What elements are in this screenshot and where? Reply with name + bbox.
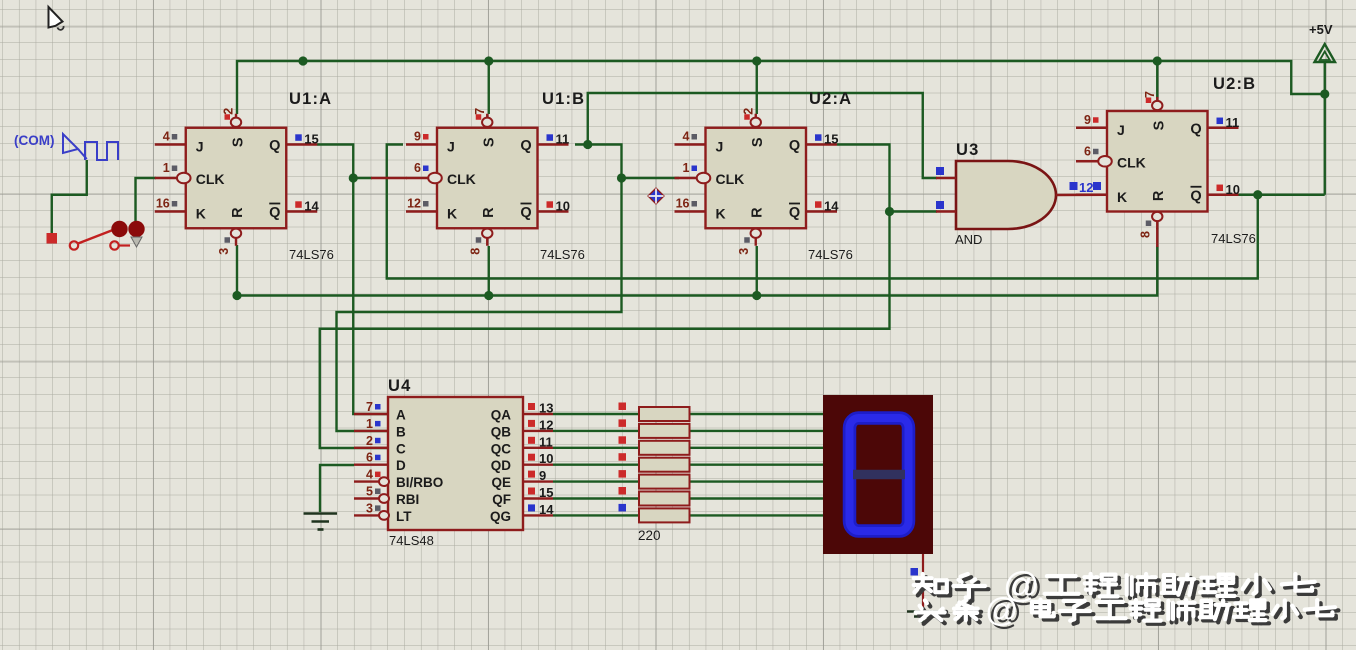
svg-text:Q: Q [789, 138, 800, 154]
junction node reset rail A [232, 291, 241, 300]
switch SW terminal square [47, 233, 58, 244]
svg-text:13: 13 [539, 401, 553, 416]
U4 pin 12 (QB) stub [523, 430, 553, 432]
svg-text:11: 11 [1226, 115, 1240, 130]
svg-text:K: K [447, 206, 457, 222]
U4 pin 7 (A) stub [354, 413, 388, 415]
wire branch to U1:B CLK [353, 177, 372, 179]
U1:B pin Qbar stub [538, 210, 569, 212]
svg-text:74LS76: 74LS76 [540, 247, 585, 262]
U4 pin 14 (QG) stub [523, 514, 553, 516]
svg-text:U2:B: U2:B [1213, 75, 1256, 93]
U2:B pin K stub [1076, 194, 1107, 196]
wire switch to U1:A CLK [136, 178, 157, 221]
ground symbol below display [907, 610, 939, 612]
ground symbol at U4 D [304, 512, 338, 515]
U1:A pin S stub and bubble [235, 114, 237, 118]
U1:A pin Q stub [286, 143, 317, 145]
probe square R7 [619, 504, 627, 512]
svg-text:+5V: +5V [1309, 22, 1333, 37]
U3 input stub 1 [936, 177, 956, 179]
origin marker diamond [648, 188, 664, 204]
svg-text:12: 12 [539, 417, 553, 432]
svg-text:3: 3 [217, 248, 231, 255]
wire resistor R1 to display segment [690, 413, 824, 415]
junction node Q2 to AND [885, 207, 894, 216]
JK flip-flop U1:B body [437, 128, 538, 229]
svg-text:R: R [1151, 190, 1167, 201]
svg-text:220: 220 [638, 528, 661, 543]
svg-text:2: 2 [366, 434, 373, 448]
svg-text:QF: QF [492, 492, 511, 507]
probe square R5 [619, 470, 627, 478]
junction node preset rail A [298, 56, 307, 65]
svg-text:CLK: CLK [196, 171, 225, 187]
U1:B pin J stub [406, 143, 437, 145]
mouse cursor [49, 7, 64, 30]
svg-text:1: 1 [683, 161, 690, 175]
svg-text:U3: U3 [956, 141, 980, 159]
svg-text:15: 15 [824, 132, 838, 147]
svg-text:15: 15 [539, 485, 553, 500]
svg-text:10: 10 [1226, 182, 1240, 197]
svg-text:Q: Q [1190, 121, 1201, 137]
svg-text:2: 2 [222, 108, 236, 115]
svg-text:@: @ [985, 591, 1019, 628]
U1:B pin K stub [406, 210, 437, 212]
JK flip-flop U2:A body [706, 128, 807, 229]
U2:A pin J stub [675, 143, 706, 145]
U1:B pin Q stub [538, 143, 569, 145]
resistor R5 220 ohm [639, 475, 690, 489]
U2:A pin number 15 (Q) [815, 134, 822, 141]
U4 pin 15 (QF) stub [523, 497, 553, 499]
probe square R2 [619, 419, 627, 427]
switch pivot circle [70, 241, 78, 249]
power +5V arrow [1315, 44, 1336, 62]
svg-text:S: S [230, 137, 246, 147]
svg-text:74LS76: 74LS76 [808, 247, 853, 262]
junction node Q0 to CLK1 [349, 173, 358, 182]
U2:A pin R stub and bubble [755, 237, 757, 246]
U2:B pin R stub and bubble [1156, 221, 1158, 230]
svg-text:14: 14 [539, 502, 554, 517]
svg-text:Q: Q [1190, 188, 1201, 204]
svg-text:R: R [481, 207, 497, 218]
resistor R1 220 ohm [639, 407, 690, 421]
svg-text:K: K [1117, 189, 1127, 205]
svg-text:J: J [447, 139, 455, 155]
U1:A pin Qbar stub [286, 210, 317, 212]
svg-text:10: 10 [556, 199, 570, 214]
wire reset rail R pins [237, 245, 1157, 296]
svg-text:D: D [396, 458, 406, 473]
U4 pin 6 (D) stub [354, 464, 388, 466]
svg-text:K: K [716, 206, 726, 222]
svg-text:16: 16 [676, 197, 690, 211]
svg-text:CLK: CLK [1117, 154, 1146, 170]
U2:B pin Q stub [1208, 127, 1239, 129]
U1:A pin CLK stub and bubble [155, 177, 177, 179]
switch state dot left [111, 221, 127, 237]
svg-text:5: 5 [366, 485, 373, 499]
U1:A pin R stub and bubble [235, 237, 237, 246]
label pin 12 (U2:B K / U3 out) [1070, 182, 1078, 190]
svg-text:(COM): (COM) [14, 133, 55, 148]
U2:B pin number 11 (Q) [1217, 118, 1224, 125]
switch lever [78, 228, 118, 244]
svg-text:LT: LT [396, 509, 412, 524]
svg-text:R: R [230, 207, 246, 218]
watermark line 1 [917, 577, 950, 595]
svg-text:QA: QA [491, 408, 512, 423]
svg-text:14: 14 [304, 199, 319, 214]
U4 pin 1 (B) stub [354, 430, 388, 432]
U3 input stub 2 [936, 210, 956, 212]
wire net pin10 down to J9 rail [387, 145, 1258, 279]
wire 74LS48 QD to resistor R4 [553, 464, 639, 466]
svg-text:CLK: CLK [447, 171, 476, 187]
wire resistor R2 to display segment [690, 430, 824, 432]
svg-text:QC: QC [491, 441, 512, 456]
svg-text:9: 9 [414, 130, 421, 144]
wire S pin vertical U2:B [1156, 61, 1158, 98]
U1:B pin CLK stub and bubble [406, 177, 428, 179]
svg-text:CLK: CLK [716, 171, 745, 187]
svg-text:R: R [750, 207, 766, 218]
U3 input probe squares [936, 167, 944, 175]
wire +5V top preset rail [237, 61, 1325, 114]
wire U4 D to ground [320, 465, 354, 512]
svg-text:74LS76: 74LS76 [1211, 231, 1256, 246]
U1:A pin number 15 (Q) [295, 134, 302, 141]
svg-text:C: C [396, 441, 406, 456]
svg-text:J: J [1117, 122, 1125, 138]
svg-text:U1:B: U1:B [542, 90, 585, 108]
svg-text:4: 4 [683, 130, 690, 144]
display common pin wire [922, 554, 924, 610]
op AND gate U3 body [956, 161, 1056, 229]
svg-text:Q: Q [269, 138, 280, 154]
U1:B pin S stub and bubble [486, 114, 488, 118]
svg-text:12: 12 [407, 197, 421, 211]
svg-text:J: J [196, 139, 204, 155]
probe square R1 [619, 403, 627, 411]
svg-text:S: S [750, 137, 766, 147]
U4 pin 2 (C) stub [354, 447, 388, 449]
JK flip-flop U1:A body [186, 128, 287, 229]
wire resistor R4 to display segment [690, 464, 824, 466]
svg-text:11: 11 [556, 132, 570, 147]
U3 output stub to U2:B K pin 12 [1056, 194, 1107, 197]
wire 74LS48 QC to resistor R3 [553, 447, 639, 449]
svg-text:11: 11 [539, 434, 553, 449]
svg-text:S: S [482, 137, 498, 147]
svg-text:Q: Q [520, 205, 531, 221]
svg-text:Q: Q [520, 138, 531, 154]
U4 pin 3 (LT) stub [354, 514, 379, 516]
svg-text:A: A [396, 408, 406, 423]
svg-text:B: B [396, 424, 406, 439]
U4 pin number 11 [528, 437, 535, 444]
svg-text:BI/RBO: BI/RBO [396, 475, 443, 490]
probe square R4 [619, 453, 627, 461]
probe square R6 [619, 487, 627, 495]
svg-text:1: 1 [163, 161, 170, 175]
U2:A pin CLK stub and bubble [675, 177, 697, 179]
U2:B pin J stub [1076, 127, 1107, 129]
svg-text:14: 14 [824, 199, 839, 214]
svg-text:6: 6 [414, 161, 421, 175]
svg-text:1: 1 [366, 417, 373, 431]
probe square R3 [619, 436, 627, 444]
svg-text:Q: Q [269, 205, 280, 221]
wire U1:A Q15 to U1:B CLK and U4 A [317, 145, 388, 415]
7-segment display body [823, 395, 933, 554]
svg-text:QD: QD [491, 458, 512, 473]
watermark line 2 [919, 604, 948, 624]
svg-text:4: 4 [163, 130, 170, 144]
switch actuator triangle [131, 237, 142, 247]
switch contact stub [119, 244, 130, 246]
svg-text:7: 7 [1143, 91, 1157, 98]
clock generator symbol [63, 134, 118, 160]
wire resistor R6 to display segment [690, 497, 824, 499]
segment G (unlit) [853, 470, 905, 480]
svg-text:Q: Q [789, 205, 800, 221]
wire resistor R3 to display segment [690, 447, 824, 449]
junction node +5V corner [1320, 89, 1329, 98]
svg-text:K: K [196, 206, 206, 222]
U2:B pin Qbar stub [1208, 194, 1239, 196]
U2:B pin CLK stub and bubble [1076, 160, 1098, 162]
resistor R3 220 ohm [639, 441, 690, 455]
U4 pin number 15 [528, 488, 535, 495]
switch right contact circle [110, 241, 118, 249]
svg-text:10: 10 [539, 451, 553, 466]
U4 pin number 9 [528, 471, 535, 478]
U4 pin 13 (QA) stub [523, 413, 553, 415]
svg-text:9: 9 [539, 468, 546, 483]
wire S pin vertical U2:A [756, 61, 758, 114]
svg-text:7: 7 [366, 400, 373, 414]
svg-text:6: 6 [366, 451, 373, 465]
wire R vertical U1:B [488, 246, 490, 296]
U1:B pin R stub and bubble [486, 237, 488, 246]
svg-text:9: 9 [1084, 113, 1091, 127]
wire S pin vertical U1:B [488, 61, 490, 114]
switch state dot right [128, 221, 144, 237]
wire 74LS48 QF to resistor R6 [553, 497, 639, 499]
resistor R6 220 ohm [639, 492, 690, 506]
U2:B R pin long stub [1156, 228, 1158, 247]
U1:B pin number 10 (Qbar) [547, 201, 554, 208]
wire resistor R5 to display segment [690, 480, 824, 482]
svg-text:4: 4 [366, 468, 373, 482]
U2:A pin K stub [675, 210, 706, 212]
svg-text:2: 2 [741, 108, 755, 115]
JK flip-flop U2:B body [1107, 111, 1208, 212]
svg-text:3: 3 [737, 248, 751, 255]
U4 pin number 13 [528, 403, 535, 410]
junction node Q1 branch [583, 140, 592, 149]
svg-text:J: J [716, 139, 724, 155]
U1:A pin J stub [155, 143, 186, 145]
U4 pin 5 (RBI) stub [354, 497, 379, 499]
svg-text:RBI: RBI [396, 492, 419, 507]
svg-text:6: 6 [1084, 144, 1091, 158]
resistor R7 220 ohm [639, 508, 690, 522]
svg-text:QB: QB [491, 424, 512, 439]
U2:B pin S stub and bubble [1156, 97, 1158, 101]
U1:B pin number 11 (Q) [547, 134, 554, 141]
svg-text:AND: AND [955, 232, 982, 247]
svg-text:74LS48: 74LS48 [389, 533, 434, 548]
U1:A pin K stub [155, 210, 186, 212]
wire U1:B Q11 net to AND input and U2:A CLK and U4 B [575, 93, 937, 178]
wire R vertical U2:A [756, 246, 758, 296]
wire 74LS48 QE to resistor R5 [553, 480, 639, 482]
junction node preset rail C [752, 56, 761, 65]
svg-text:U4: U4 [388, 377, 412, 395]
svg-text:8: 8 [468, 248, 482, 255]
U4 pin number 10 [528, 454, 535, 461]
svg-text:16: 16 [156, 197, 170, 211]
U4 pin 11 (QC) stub [523, 447, 553, 449]
U1:B CLK long stub [371, 177, 407, 179]
U4 pin number 12 [528, 420, 535, 427]
U2:A pin Qbar stub [806, 210, 837, 212]
U4 pin 4 (BI/RBO) stub [354, 480, 379, 482]
svg-text:15: 15 [304, 132, 318, 147]
svg-text:U1:A: U1:A [289, 90, 332, 108]
svg-text:U2:A: U2:A [809, 90, 852, 108]
resistor R4 220 ohm [639, 458, 690, 472]
U2:A pin number 14 (Qbar) [815, 201, 822, 208]
svg-text:3: 3 [366, 501, 373, 515]
junction node reset rail C [752, 291, 761, 300]
component U4 74LS48 BCD decoder body [388, 397, 523, 530]
svg-text:QG: QG [490, 509, 511, 524]
U2:B pin number 10 (Qbar) [1217, 185, 1224, 192]
display pin probe square [911, 568, 919, 576]
junction node pin10 branch [1253, 190, 1262, 199]
wire U2:B Q_bar pin10 to +5V net [1238, 194, 1325, 196]
junction node preset rail D [1153, 56, 1162, 65]
wire 74LS48 QA to resistor R1 [553, 413, 639, 415]
wire 74LS48 QG to resistor R7 [553, 514, 639, 516]
wire clock source to switch [52, 160, 87, 233]
wire U2:A Q15 net to AND input 2 and U4 C [837, 145, 937, 212]
wire resistor R7 to display segment [690, 514, 824, 516]
svg-text:12: 12 [1079, 180, 1093, 195]
U2:A pin S stub and bubble [755, 114, 757, 118]
svg-text:QE: QE [491, 475, 511, 490]
svg-text:7: 7 [473, 108, 487, 115]
U4 pin 10 (QD) stub [523, 464, 553, 466]
svg-text:S: S [1152, 120, 1168, 130]
U4 pin 9 (QE) stub [523, 480, 553, 482]
junction node preset rail B [484, 56, 493, 65]
U2:A pin Q stub [806, 143, 837, 145]
junction node CLK2 branch [617, 173, 626, 182]
segments A-F lit as digit 0 ring [850, 418, 909, 531]
svg-text:8: 8 [1138, 231, 1152, 238]
wire 74LS48 QB to resistor R2 [553, 430, 639, 432]
resistor R2 220 ohm [639, 424, 690, 438]
U1:A pin number 14 (Qbar) [295, 201, 302, 208]
U4 pin number 14 [528, 504, 535, 511]
wire +5V vertical to arrow and pin10 row [1324, 62, 1326, 195]
junction node reset rail B [484, 291, 493, 300]
svg-text:74LS76: 74LS76 [289, 247, 334, 262]
